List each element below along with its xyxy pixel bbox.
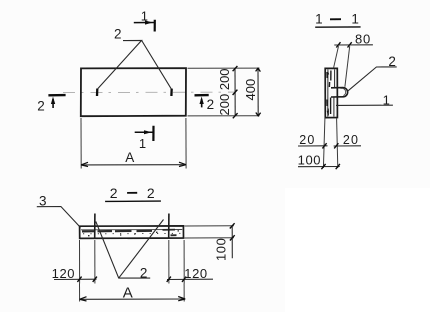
- anchor bar left (2-2): [94, 214, 96, 238]
- svg-text:1: 1: [141, 8, 148, 23]
- section mark 2 left: arrow stem: [52, 99, 54, 108]
- dimension line 200/200: [234, 68, 236, 116]
- svg-text:A: A: [125, 150, 134, 165]
- plate inner line left: [327, 69, 329, 116]
- A extension right (2-2): [183, 284, 185, 302]
- plate outline (section 2-2): [80, 226, 184, 239]
- hook tab inner arc: [341, 88, 346, 95]
- label 2 leader V (2-2): [96, 220, 164, 279]
- svg-text:2: 2: [147, 185, 155, 201]
- svg-text:1: 1: [315, 11, 323, 26]
- title 2-2 underline: [105, 200, 161, 202]
- plate dots (2-2): [88, 231, 179, 236]
- svg-text:100: 100: [298, 152, 322, 167]
- 100 dim line (2-2): [231, 226, 233, 258]
- 120 right ticks: [167, 277, 187, 282]
- section mark 2 left: arrowhead: [51, 97, 55, 105]
- A dim arrow right (2-2): [178, 297, 185, 301]
- A extension right (plan): [185, 118, 187, 169]
- 120 right extension a: [168, 240, 170, 284]
- label 2 leader (plan): [98, 40, 172, 88]
- section mark 2 right: arrowhead: [200, 97, 204, 105]
- A extension left (2-2): [79, 284, 81, 302]
- bar hatch upper: [327, 71, 331, 88]
- svg-text:1: 1: [383, 92, 390, 107]
- A extension left (plan): [80, 118, 82, 169]
- svg-text:A: A: [123, 284, 133, 301]
- 100 extension top (2-2): [185, 225, 234, 227]
- bar hatch lower arrow: [327, 111, 329, 115]
- svg-text:2: 2: [37, 99, 45, 114]
- dim arrows 400: [256, 68, 261, 116]
- 80 dim ticks: [336, 42, 351, 47]
- svg-text:400: 400: [243, 79, 258, 101]
- A dimension line (plan): [81, 164, 186, 166]
- extension line top right (plan): [188, 67, 260, 69]
- 100 ticks (section 1-1): [321, 164, 340, 169]
- svg-text:200: 200: [217, 68, 232, 90]
- label 3 leader: [37, 207, 81, 228]
- svg-text:2: 2: [388, 54, 396, 69]
- A dimension line (2-2): [80, 298, 186, 300]
- centerline of plate: [63, 91, 236, 94]
- 80 extension line left (tilted): [334, 46, 339, 68]
- section mark 1 bottom: bar: [152, 126, 154, 141]
- hook tab (section 1-1): [331, 88, 348, 97]
- 80 extension line right (tilted): [345, 46, 350, 87]
- 100 line (section 1-1): [298, 166, 340, 168]
- 120 right dim line: [167, 278, 213, 280]
- plate fill band left (2-2): [82, 230, 152, 233]
- plate inner top line (2-2): [81, 229, 182, 231]
- svg-text:2: 2: [140, 266, 148, 281]
- svg-text:120: 120: [184, 266, 208, 281]
- 120 left dim line: [54, 278, 97, 280]
- label 1 leader (section 1-1): [336, 104, 393, 106]
- section mark 2 right: arrow stem: [201, 99, 203, 107]
- anchor tick left (plan): [96, 89, 99, 96]
- lower extension left (section 1-1): [323, 119, 325, 169]
- 120 left ticks: [77, 277, 97, 282]
- A dim arrow left (2-2): [80, 297, 87, 301]
- bar hatch lower: [327, 98, 331, 116]
- label 2 leader (section 1-1): [348, 67, 397, 91]
- 120 right extension b: [183, 240, 185, 284]
- A dim arrow right (plan): [179, 162, 186, 166]
- svg-text:2: 2: [110, 185, 118, 201]
- section mark 1 top: line: [134, 22, 154, 24]
- 20 right tick: [334, 143, 338, 148]
- 120 left extension a: [79, 240, 81, 284]
- dimension line 400: [257, 68, 259, 116]
- 100 ticks (2-2): [230, 223, 235, 240]
- section mark 1 top: bar: [154, 20, 156, 32]
- plate outline (plan): [81, 68, 186, 116]
- svg-text:20: 20: [299, 133, 315, 147]
- svg-text:80: 80: [355, 31, 371, 46]
- section mark 1 bottom: line: [135, 131, 153, 133]
- section mark 1 top: arrow: [145, 21, 153, 25]
- plate inner line right lower: [333, 97, 335, 117]
- svg-text:20: 20: [343, 133, 359, 147]
- bar hatch upper arrow: [327, 71, 329, 75]
- extension line bottom right (plan): [188, 115, 260, 117]
- section mark 2 left: bar: [48, 94, 65, 97]
- svg-text:200: 200: [217, 94, 232, 116]
- svg-text:1: 1: [139, 136, 146, 151]
- 20 left tick: [322, 143, 326, 148]
- A dim arrow left (plan): [81, 162, 88, 166]
- 100 extension bottom (2-2): [185, 237, 234, 239]
- dim ticks 200/200: [233, 66, 238, 118]
- anchor bar right (2-2): [168, 214, 170, 238]
- title 2-2 dash: [127, 192, 137, 194]
- plate inner line right upper: [334, 69, 336, 87]
- 120 left extension b: [94, 240, 96, 284]
- section mark 2 right: bar: [195, 94, 209, 97]
- svg-text:1: 1: [351, 11, 359, 26]
- title underline: [315, 26, 360, 28]
- svg-text:2: 2: [207, 97, 215, 112]
- anchor tick right (plan): [170, 89, 173, 96]
- 20 right line: [334, 145, 361, 147]
- lower extension right (section 1-1): [337, 119, 338, 169]
- plate fill band right (2-2): [163, 230, 177, 236]
- svg-text:100: 100: [214, 238, 229, 261]
- svg-text:120: 120: [52, 266, 76, 281]
- 80 dimension line: [334, 44, 373, 46]
- section mark 1 bottom: arrow: [144, 130, 152, 134]
- plate outline (section 1-1): [325, 68, 337, 117]
- plate stipple (2-2): [83, 232, 181, 234]
- svg-text:2: 2: [114, 27, 122, 42]
- 20 left line: [298, 145, 328, 147]
- title dash: [330, 18, 341, 20]
